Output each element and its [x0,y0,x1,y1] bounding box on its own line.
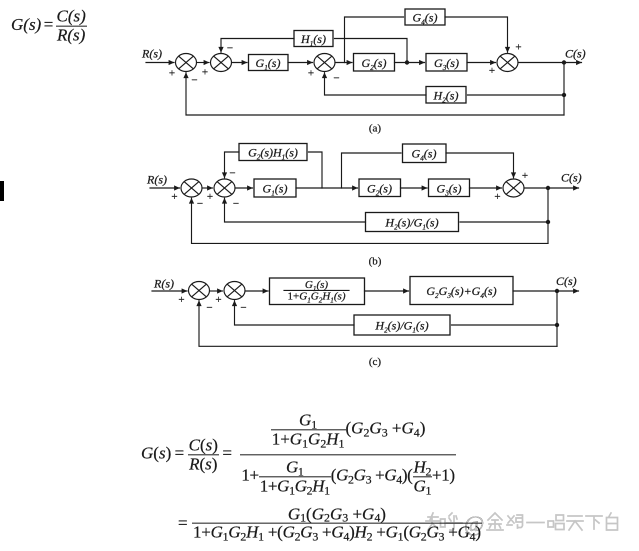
wire G2 to G3 (b) [401,187,428,189]
wire node to H2/G1 block (b) [460,221,548,223]
svg-text:−: − [206,302,212,314]
wire G3 to S3 (b) [470,187,502,189]
minus sign at S2 top (b) [229,168,235,180]
block G1(s) (a) [249,55,289,72]
wire H1 to S2 (a) [221,39,294,53]
final transfer function derivation line 1 [141,411,456,494]
minus sign at S2 (c) [240,302,246,314]
summing junction S1 (a) [176,54,197,72]
wire outer feedback to S1 (c) [199,301,557,347]
wire G1 to G2 (b) [296,187,358,189]
block G2G3(s)+G4(s) (c) [410,277,513,305]
wire S1 to S2 (a) [197,62,210,64]
block G1(s) (b) [254,179,296,197]
svg-text:+: + [207,191,213,203]
minus sign at S1 (b) [197,198,203,210]
final transfer function derivation line 2 [178,505,482,542]
block G4(s) (b) [403,144,447,163]
wire G1 to S3 (a) [288,62,313,64]
wire output node down (b) [547,188,549,243]
summing junction S3 (b) [503,179,524,197]
svg-text:−: − [229,168,235,180]
svg-text:+: + [202,67,208,79]
wire output node down (a) [563,63,565,116]
wire S1 to S2 (c) [210,290,223,292]
node R(s) input label (a) [141,47,162,61]
svg-text:R(s): R(s) [141,47,162,61]
svg-text:H2(s): H2(s) [433,88,459,104]
svg-text:1+G1G2H1(s): 1+G1G2H1(s) [288,291,346,305]
summing junction S3 (a) [314,54,335,72]
wire tap to H1 (a) [335,39,408,63]
plus sign at S1 (b) [171,191,177,203]
block H2(s)/G1(s) (b) [366,213,459,232]
svg-text:G2G3(s)+G4(s): G2G3(s)+G4(s) [426,284,496,300]
wire tap up to G2H1 (b) [309,152,323,188]
node C(s) output label (c) [556,274,577,288]
wire R(s) input (a) [146,62,174,64]
minus sign at S2 (a) [227,43,233,55]
svg-text:G4(s): G4(s) [413,10,438,26]
block G3(s) (a) [426,54,467,72]
svg-text:C(s): C(s) [561,171,582,185]
svg-text:+: + [515,42,521,54]
left-edge black mark [0,181,4,201]
wire R(s) input (c) [152,290,187,292]
block G2(s) (a) [354,54,395,72]
svg-text:(a): (a) [369,123,382,135]
summing junction S1 (b) [181,179,202,197]
plus sign at S2 (c) [215,294,221,306]
svg-text:−: − [227,43,233,55]
plus sign at S3 (a) [308,68,314,80]
summing junction S2 (b) [214,179,235,197]
top-left transfer function G(s)=C(s)/R(s) [11,8,87,45]
plus sign at S1 (a) [169,68,175,80]
wire R(s) input (b) [150,187,180,189]
wire S2 to G1 (b) [235,187,253,189]
junction dot after G2 (a) [405,60,409,64]
svg-text:H2(s)/G1(s): H2(s)/G1(s) [374,318,428,334]
wire G2H1 to S2 (b) [225,152,240,178]
svg-text:H2(s)/G1(s): H2(s)/G1(s) [384,215,438,231]
minus sign at S2 bottom (b) [233,198,239,210]
wire S3 to C(s) output (b) [524,187,579,189]
block G3(s) (b) [429,179,470,197]
svg-text:R(s): R(s) [146,173,167,187]
svg-text:(c): (c) [369,356,382,368]
wire S1 to S2 (b) [202,187,213,189]
svg-text:R(s): R(s) [153,277,174,291]
wire output node down (c) [556,291,558,346]
caption (a) [369,123,382,135]
svg-text:−: − [233,198,239,210]
junction dot at H2 tap (a) [562,93,566,97]
minus sign at S1 (c) [206,302,212,314]
summing junction S2 (c) [224,282,245,300]
plus sign at S3 top (b) [522,170,528,182]
wire G2 to G3 (a) [395,62,425,64]
svg-text:+: + [308,68,314,80]
wire B2 to C(s) output (c) [513,290,579,292]
watermark 知乎@金鸡一唱天下白 (drawn strokes) [426,511,618,536]
minus sign at S3 (a) [333,73,339,85]
svg-text:+: + [171,191,177,203]
block G2(s)H1(s) (b) [239,144,307,162]
block H1(s) (a) [294,31,333,48]
wire B1 to B2 (c) [365,290,409,292]
wire S2 to block B1 (c) [245,290,268,292]
wire S4 to C(s) output (a) [518,62,582,64]
svg-text:G1(s): G1(s) [256,56,281,72]
junction dot output node (a) [562,60,566,64]
summing junction S2 (a) [211,54,232,72]
junction dot at H2/G1 tap (b) [546,220,550,224]
svg-text:G2(s): G2(s) [367,181,392,197]
svg-text:−: − [197,198,203,210]
wire outer feedback to S1 (b) [192,198,549,243]
wire G4 to S3 (b) [446,153,514,178]
wire S2 to G1 (a) [232,62,248,64]
block G2(s) (b) [359,179,401,197]
svg-text:G1(s): G1(s) [263,181,288,197]
plus sign at S3 left (b) [494,191,500,203]
plus sign at S2 (a) [202,67,208,79]
wire tap up to G4 (b) [342,153,402,188]
svg-text:H1(s): H1(s) [300,32,326,48]
node R(s) input label (c) [153,277,174,291]
svg-text:+: + [489,65,495,77]
summing junction S4 (a) [497,54,518,72]
svg-text:C(s): C(s) [556,274,577,288]
svg-text:−: − [240,302,246,314]
svg-text:(b): (b) [369,256,382,268]
wire S3 to G2 with branch node (a) [335,62,352,64]
svg-text:+: + [494,191,500,203]
wire branch up to G4 (a) [345,17,404,63]
block H2(s)/G1(s) (c) [354,315,450,335]
wire G3 to S4 (a) [467,62,496,64]
svg-text:+: + [178,294,184,306]
svg-text:−: − [191,75,197,87]
plus sign at S1 (c) [178,294,184,306]
svg-text:+: + [169,68,175,80]
wire H2/G1 to S2 (b) [225,198,366,222]
block G4(s) (a) [405,9,445,26]
wire H2/G1 to S2 (c) [235,301,355,325]
wire outer feedback to S1 (a) [186,73,564,115]
junction dot at H2/G1 tap (c) [555,323,559,327]
plus sign at S2 (b) [207,191,213,203]
minus sign at S1 (a) [191,75,197,87]
svg-text:G3(s): G3(s) [434,56,459,72]
svg-text:G2(s)H1(s): G2(s)H1(s) [248,145,298,161]
wire node to H2/G1 block (c) [452,324,558,326]
svg-text:G4(s): G4(s) [412,146,437,162]
wire node to H2 (a) [468,94,565,96]
junction dot output node (b) [546,186,550,190]
plus sign at S4 top (a) [515,42,521,54]
summing junction S1 (c) [189,282,210,300]
svg-text:+: + [215,294,221,306]
svg-text:C(s): C(s) [565,47,586,61]
svg-text:G3(s): G3(s) [437,181,462,197]
svg-text:−: − [333,73,339,85]
block G1/(1+G1G2H1) (c) [270,278,365,305]
wire H2 to S3 (a) [325,73,427,95]
caption (c) [369,356,382,368]
wire G4 to S4 (a) [445,17,508,52]
svg-text:+: + [522,170,528,182]
caption (b) [369,256,382,268]
node C(s) output label (b) [561,171,582,185]
svg-text:G2(s): G2(s) [362,56,387,72]
plus sign at S4 left (a) [489,65,495,77]
node R(s) input label (b) [146,173,167,187]
block H2(s) (a) [426,87,466,105]
node C(s) output label (a) [565,47,586,61]
junction dot output node (c) [555,289,559,293]
